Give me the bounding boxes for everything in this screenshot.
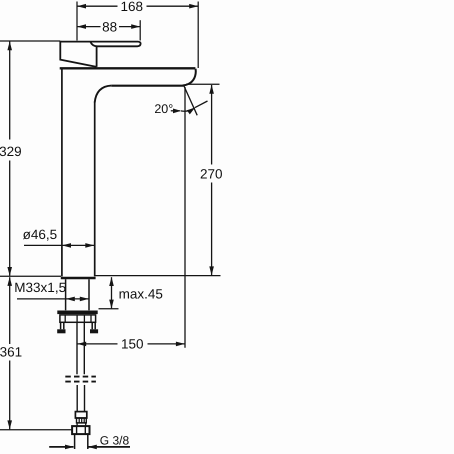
ext line spout tip vertical	[184, 87, 186, 348]
dim 150 line	[77, 343, 184, 345]
dim 88 line	[77, 26, 140, 28]
arrow G38 left	[65, 445, 74, 450]
arrow 150 left	[77, 342, 86, 347]
arrow 270 bottom	[209, 266, 214, 275]
dim max45 line	[111, 277, 113, 308]
svg-text:270: 270	[200, 167, 223, 182]
arrow 20deg right	[187, 108, 195, 115]
hose knurl	[77, 418, 87, 423]
nut facets	[77, 426, 86, 434]
connector nut	[72, 426, 89, 434]
arrow 329 top	[7, 41, 12, 50]
underside corner	[95, 86, 112, 103]
dim G3/8 line	[49, 446, 130, 448]
arrow 168 left	[77, 4, 86, 9]
arrow max45 bottom	[109, 300, 114, 309]
arrow 361 bottom	[7, 420, 12, 429]
arrowheads	[7, 4, 214, 449]
hose upper	[77, 323, 84, 375]
handle blade	[60, 42, 140, 47]
washer flange	[57, 311, 97, 315]
arrow 150 right	[176, 342, 185, 347]
column left edge	[61, 69, 63, 276]
ext line x77	[76, 2, 78, 41]
arrow 168 right	[189, 4, 198, 9]
dim 270 line	[211, 85, 213, 275]
handle rear body	[60, 41, 96, 67]
svg-text:max.45: max.45	[119, 287, 163, 302]
svg-text:G 3/8: G 3/8	[100, 434, 130, 448]
dim 20deg tail	[195, 101, 208, 108]
arrow 361 top	[7, 277, 12, 286]
arrow 329 bottom	[7, 267, 12, 276]
spout top	[60, 67, 196, 69]
dim 20deg leader	[171, 110, 180, 112]
dim 168 line	[77, 5, 198, 7]
svg-text:168: 168	[121, 0, 144, 14]
bracket band	[60, 315, 96, 322]
svg-text:150: 150	[121, 337, 144, 352]
dim M33x1,5 leader	[17, 298, 89, 300]
faucet outline	[60, 41, 196, 449]
arrow 88 right	[131, 24, 140, 29]
dim 361 line	[9, 277, 11, 429]
spout underside	[111, 85, 185, 87]
column bottom	[61, 277, 96, 280]
shank walls	[66, 279, 89, 310]
dim dia46,5 leader	[24, 244, 94, 246]
svg-text:329: 329	[0, 144, 22, 159]
bracket foot right	[90, 329, 98, 333]
hose collar	[77, 423, 86, 426]
ref line handle-top left	[0, 40, 60, 42]
arrow max45 top	[109, 277, 114, 286]
arrow dia46 left	[62, 243, 71, 248]
bracket legs	[61, 323, 96, 330]
svg-text:ø46,5: ø46,5	[23, 227, 58, 242]
arrow M33 right	[80, 297, 89, 302]
svg-text:M33x1,5: M33x1,5	[14, 280, 66, 295]
bracket band inner lines	[65, 315, 91, 322]
svg-text:361: 361	[0, 345, 22, 360]
ref line hose end	[0, 429, 72, 431]
hose crimp sleeve	[75, 412, 86, 418]
ref line spout-tip level	[186, 83, 220, 85]
arrow 20deg left	[173, 109, 181, 114]
line 20deg angled	[184, 87, 197, 116]
column right edge	[94, 102, 96, 277]
bracket foot left	[57, 329, 65, 333]
arrow 88 left	[77, 24, 86, 29]
svg-text:88: 88	[102, 19, 117, 34]
dim 329 line	[9, 42, 11, 276]
arrow 270 top	[209, 85, 214, 94]
dim 20deg arc	[181, 108, 195, 111]
hose break dashes	[65, 376, 96, 378]
svg-text:20°: 20°	[154, 102, 173, 116]
spout beak	[183, 69, 196, 86]
ref line max45 bottom	[99, 308, 119, 310]
ref line mounting surface left	[0, 275, 61, 277]
ref line mounting surface right	[96, 275, 221, 277]
arrow M33 left	[66, 297, 75, 302]
ext line x198	[197, 2, 199, 69]
ext line x140	[139, 20, 141, 40]
hose lower	[77, 385, 84, 412]
arrow G38 right	[88, 445, 97, 450]
G3/8 pipe	[75, 434, 88, 449]
knurl hatches	[79, 418, 84, 423]
arrow dia46 right	[85, 243, 94, 248]
